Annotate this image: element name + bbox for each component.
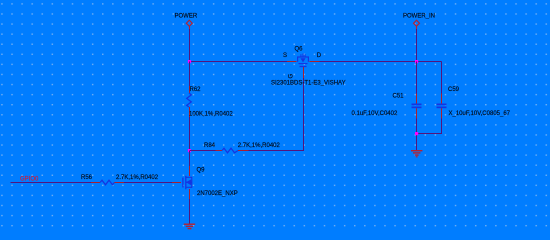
svg-text:G: G — [289, 74, 295, 79]
node junction R62/R84/Q9-D — [188, 149, 191, 152]
pin Q6 S stub — [287, 61, 297, 63]
capacitor C59 — [437, 104, 447, 109]
svg-text:C59: C59 — [448, 87, 460, 93]
resistor R56 — [100, 180, 114, 185]
net label POWER — [175, 13, 198, 19]
value 0.1uF,10V,C0402 — [352, 111, 398, 117]
value X_10uF,10V,C0805_67 — [449, 111, 511, 117]
power symbol POWER — [186, 20, 192, 30]
pin Q9 gate stub — [172, 182, 181, 184]
resistor R62 — [187, 62, 192, 151]
svg-text:Q6: Q6 — [295, 46, 304, 52]
ground GND (Q9 source) — [184, 224, 195, 230]
label R84 — [204, 143, 216, 149]
wire GPIO0 to R56 — [11, 182, 92, 184]
wire C59 bottom to junction — [416, 119, 442, 134]
pin C51 bottom stub — [416, 108, 418, 118]
pin label S — [283, 53, 287, 59]
svg-text:C51: C51 — [393, 94, 405, 100]
value 2.7K,1%,R0402 (R56) — [116, 175, 159, 181]
pin R56 left stub — [91, 182, 100, 184]
label C59 — [448, 87, 460, 93]
svg-text:Q9: Q9 — [197, 167, 206, 173]
label C51 — [393, 94, 405, 100]
pin C59 top stub — [441, 94, 443, 104]
svg-text:2.7K,1%,R0402: 2.7K,1%,R0402 — [116, 175, 159, 181]
pin Q6 gate stub — [303, 66, 305, 78]
wire Q6 D to C59 corner — [320, 61, 442, 63]
value 2N7002E_NXP — [197, 191, 238, 197]
power symbol POWER_IN — [414, 20, 420, 30]
wire R56 to Q9 gate pin — [124, 182, 172, 184]
wire Q9 source to ground — [189, 199, 191, 224]
value 100K,1%,R0402 — [189, 111, 233, 117]
pin label G (rotated) — [289, 74, 295, 79]
pin R56 right stub — [114, 182, 124, 184]
pin Q9 source stub — [189, 189, 191, 199]
svg-text:0.1uF,10V,C0402: 0.1uF,10V,C0402 — [352, 111, 398, 117]
transistor Q6 (P-MOSFET SI2301) — [297, 54, 309, 67]
svg-text:S: S — [283, 53, 287, 59]
pin label D — [317, 53, 322, 59]
wire R84 to Q6 gate — [303, 78, 305, 151]
svg-text:R84: R84 — [204, 143, 216, 149]
label Q6 — [295, 46, 304, 52]
pin C51 top stub — [416, 94, 418, 104]
svg-text:SI2301BDS-T1-E3_VISHAY: SI2301BDS-T1-E3_VISHAY — [271, 80, 346, 86]
svg-text:R62: R62 — [190, 87, 202, 93]
capacitor C51 — [412, 104, 422, 109]
svg-text:2.7K,1%,R0402: 2.7K,1%,R0402 — [238, 143, 281, 149]
svg-text:D: D — [317, 53, 322, 59]
svg-text:R56: R56 — [81, 175, 93, 181]
node junction C51/C59/GND — [415, 132, 418, 135]
svg-text:2N7002E_NXP: 2N7002E_NXP — [197, 191, 238, 197]
value SI2301BDS-T1-E3_VISHAY — [271, 80, 346, 86]
value 2.7K,1%,R0402 (R84) — [238, 143, 281, 149]
label Q9 — [197, 167, 206, 173]
wire R62 junction to Q9 drain pin — [189, 151, 191, 166]
resistor R84 — [190, 148, 304, 153]
node junction POWER_IN/C51 — [415, 60, 418, 63]
label R62 — [190, 87, 202, 93]
wire POWER stem — [189, 29, 191, 62]
pin Q9 drain stub — [189, 166, 191, 176]
node junction POWER/R62/Q6-S — [188, 60, 191, 63]
ground GND (capacitors) — [411, 150, 422, 157]
wire POWER junction to Q6 S pin — [190, 61, 288, 63]
pin Q6 D stub — [310, 61, 320, 63]
svg-text:GPIO0: GPIO0 — [20, 177, 39, 183]
svg-text:X_10uF,10V,C0805_67: X_10uF,10V,C0805_67 — [449, 111, 511, 117]
svg-text:POWER_IN: POWER_IN — [403, 13, 435, 19]
svg-text:POWER: POWER — [175, 13, 198, 19]
svg-text:100K,1%,R0402: 100K,1%,R0402 — [189, 111, 233, 117]
wire junction to C51 top pin — [416, 62, 418, 94]
net label GPIO0 — [20, 177, 39, 183]
transistor Q9 (N-MOSFET 2N7002E) — [183, 176, 192, 190]
label R56 — [81, 175, 93, 181]
wire corner to C59 top pin — [441, 62, 443, 94]
pin C59 bottom stub — [441, 108, 443, 118]
net label POWER_IN — [403, 13, 435, 19]
wire C51 bottom to ground — [416, 119, 418, 151]
wire POWER_IN stem — [416, 29, 418, 62]
